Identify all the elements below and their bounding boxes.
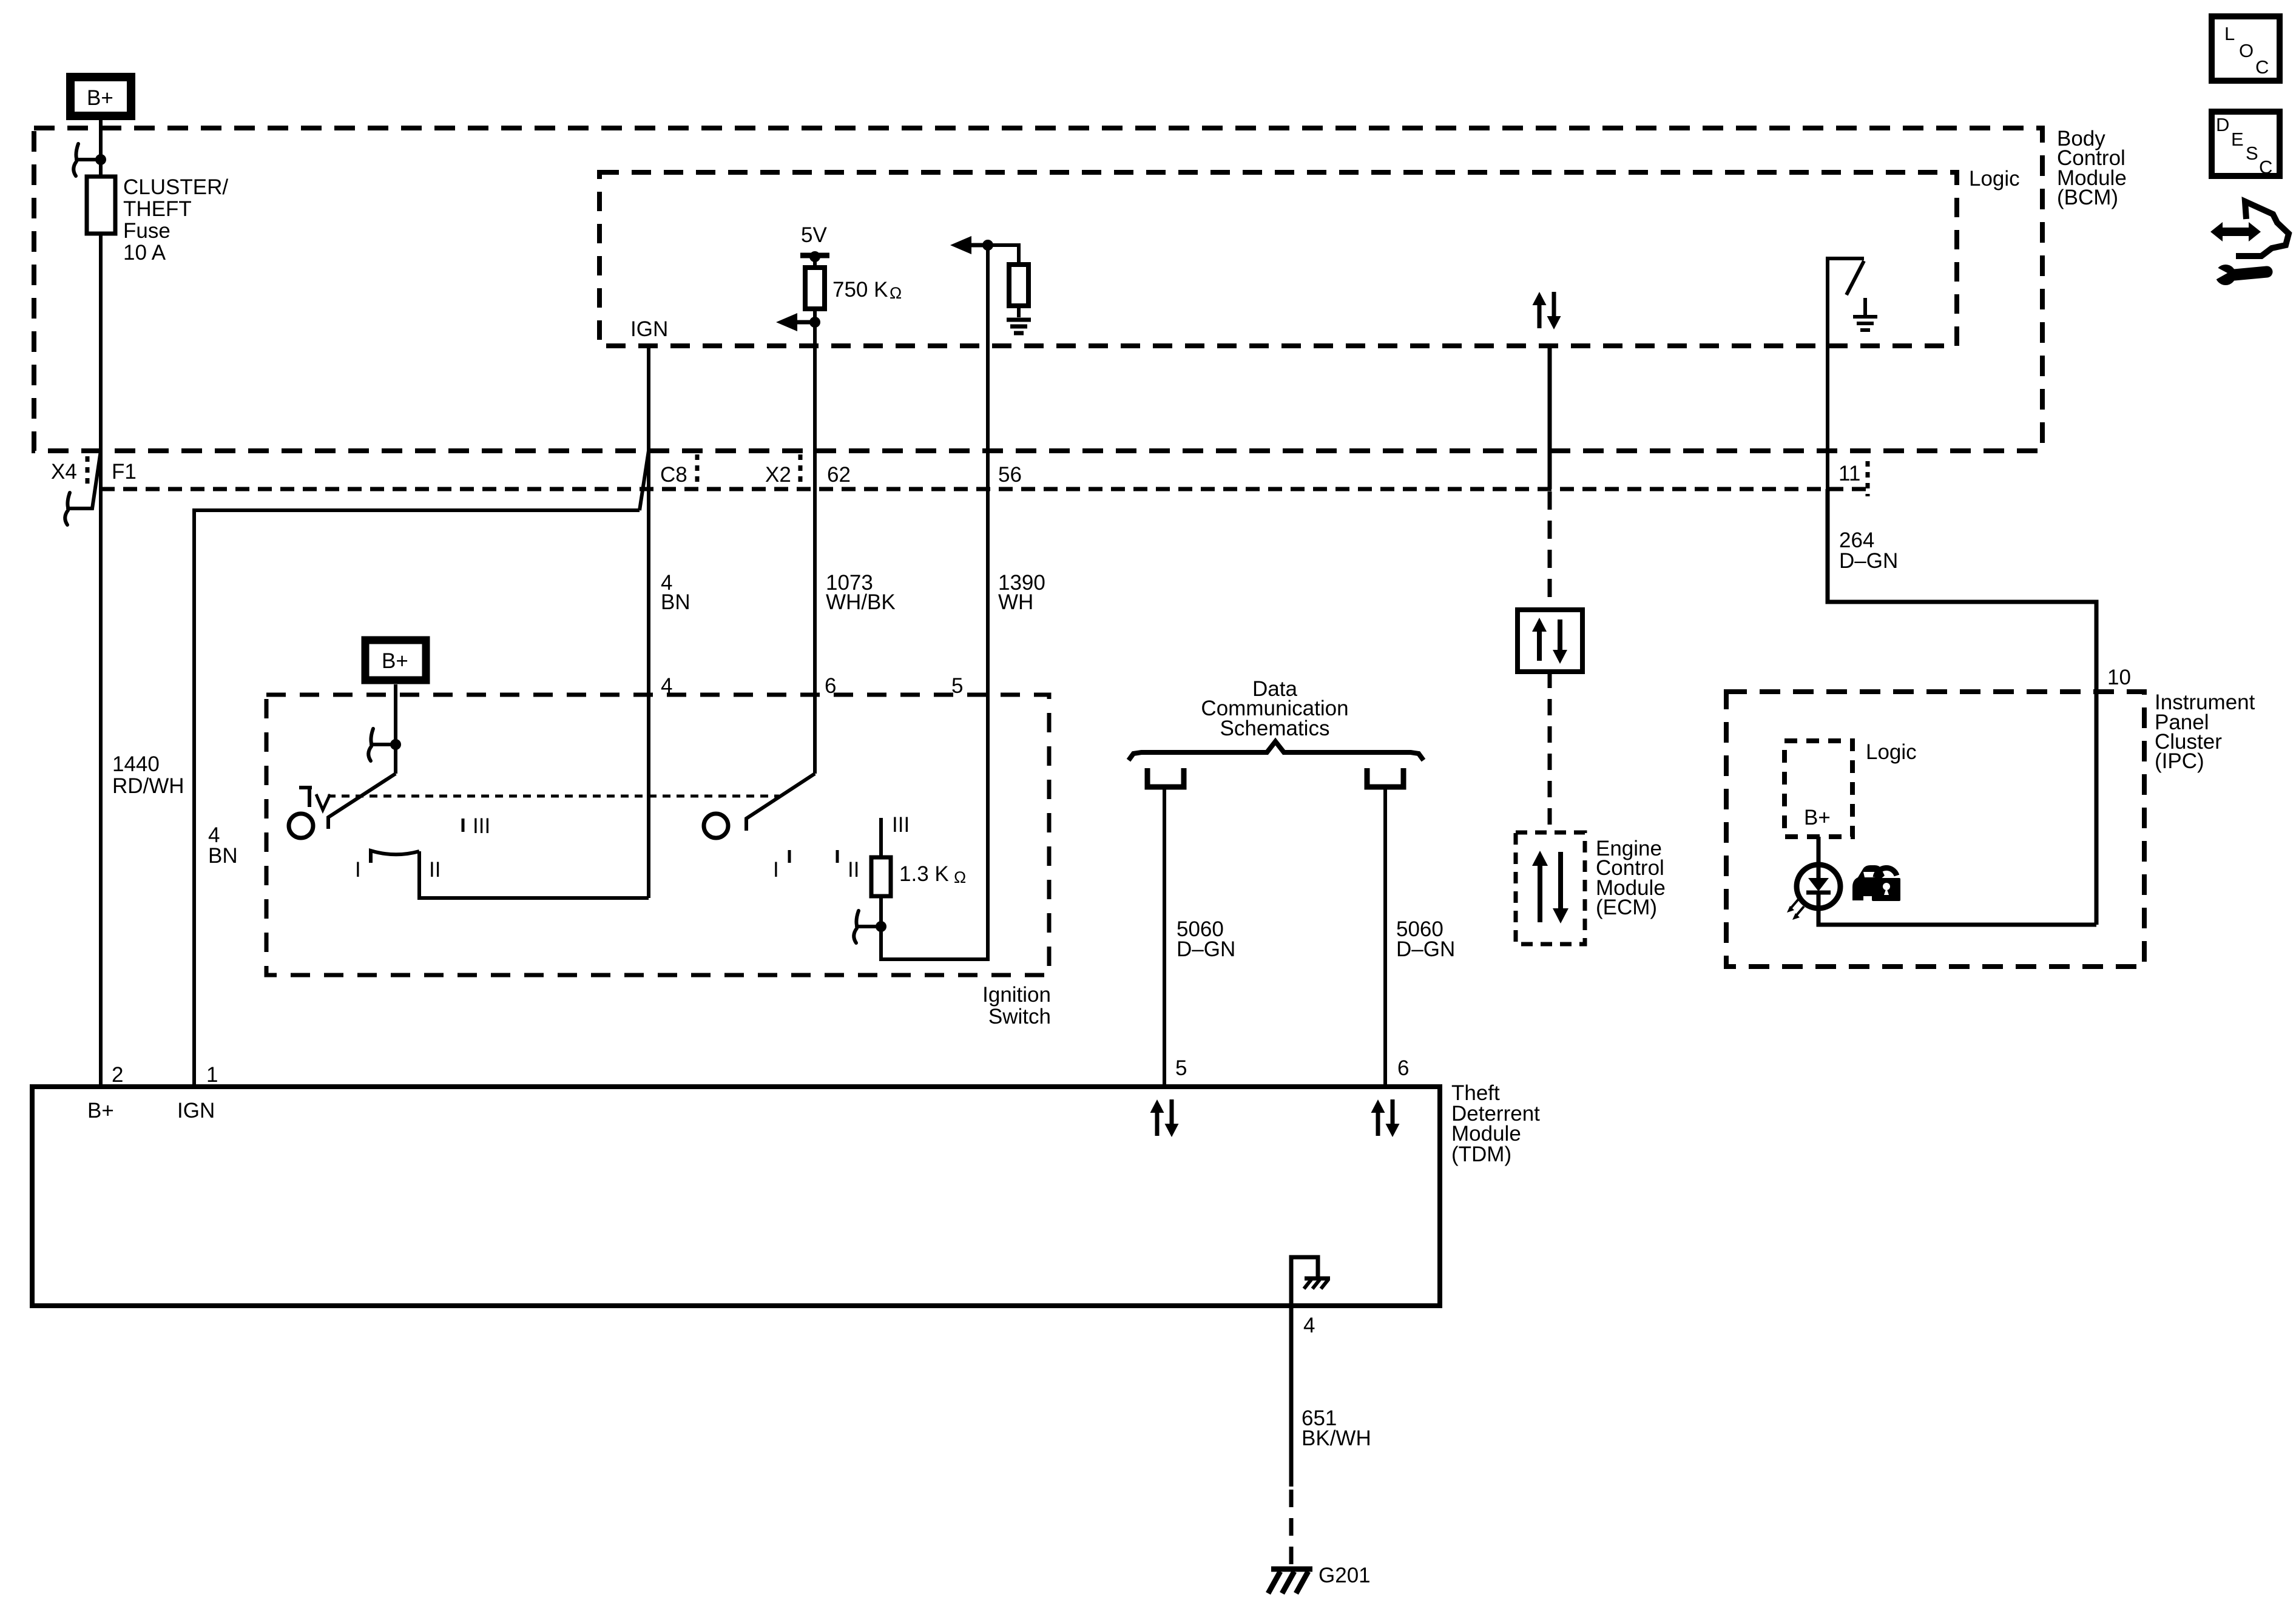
svg-text:S: S (2246, 143, 2258, 164)
battery feed B+ box (70, 77, 131, 116)
svg-text:III: III (892, 813, 910, 837)
clamp at 1.3 K node (854, 911, 881, 943)
clamp at F1 spur (65, 493, 92, 525)
5V supply bar (800, 253, 829, 258)
contact circle pole 2 (704, 814, 728, 838)
spur slant at C8 to TDM IGN branch (640, 451, 649, 510)
svg-text:11: 11 (1838, 462, 1860, 485)
junction node below 1.3 K (876, 921, 886, 932)
IPC dashed box (1726, 692, 2144, 967)
svg-text:2: 2 (112, 1063, 123, 1087)
arrow pointing left at 56 node (971, 243, 988, 248)
switch blade (open) (1846, 261, 1864, 295)
wire horizontal branch to TDM pin 1 (194, 510, 640, 1087)
car security icon (1852, 865, 1900, 901)
connector separator right of X2 (799, 454, 803, 485)
LED emission arrows (1787, 899, 1804, 920)
TDM internal ground trace (1291, 1257, 1318, 1306)
ground switch in BCM logic (1828, 258, 1864, 489)
svg-text:B+: B+ (87, 86, 113, 110)
ground symbol at switch (1853, 298, 1877, 330)
wire III contact to resistor 1.3 K (879, 818, 883, 857)
svg-text:IgnitionSwitch: IgnitionSwitch (982, 983, 1051, 1028)
wire 264 D-GN to IPC pin 10 (1828, 489, 2096, 925)
resistor 1.3 K (871, 857, 891, 896)
wire serial data to TDM pin 6 (1383, 789, 1387, 1087)
svg-text:6: 6 (1397, 1056, 1409, 1080)
junction node 56 branch (982, 240, 993, 251)
ground G201 symbol (1268, 1569, 1312, 1593)
resistor to ground (BCM) (1009, 265, 1028, 306)
connector separator right of 11 (1866, 461, 1870, 496)
svg-text:II: II (429, 858, 441, 882)
wire fuse output down to TDM pin 2 (99, 234, 103, 1087)
wire arc end to pin 4 rail (419, 851, 649, 898)
ground symbol (BCM pull-down) (1007, 320, 1031, 333)
wire dashed to G201 (1289, 1490, 1294, 1567)
ECM dashed box (1516, 832, 1585, 944)
connector separator right of C8 (695, 454, 700, 485)
position tick II pole 2 (836, 850, 839, 863)
arrow pointing left at node (797, 320, 815, 325)
svg-text:X4: X4 (51, 460, 77, 484)
ignition switch dashed box (266, 695, 1049, 975)
arrows in TDM below pin 6 (1371, 1099, 1400, 1137)
wire B+ from box to fuse (99, 120, 103, 177)
position tick III pole 1 (462, 819, 465, 832)
wire 5V bar to resistor (813, 255, 817, 268)
horizontal brace (1129, 741, 1423, 760)
wire resistor to ground symbol (1017, 306, 1021, 317)
svg-text:C: C (2259, 157, 2272, 178)
LED cathode bar (1806, 891, 1831, 895)
junction node at 5V bar (809, 251, 820, 262)
svg-text:5V: 5V (801, 223, 827, 247)
diagnostic icon (double arrow, dart outline, wrench) (2210, 201, 2289, 285)
contact circle pole 1 (289, 814, 313, 838)
svg-text:Ω: Ω (890, 284, 902, 302)
switch blade pole 2 (746, 774, 815, 831)
svg-text:1: 1 (206, 1063, 218, 1087)
wire serial data BCM to data link (dashed) (1548, 491, 1552, 610)
data link connector box (1518, 610, 1582, 672)
wire IGN from logic box to ignition switch pin 4 (647, 347, 650, 898)
serial data arrows in BCM logic (1533, 292, 1561, 329)
junction node below resistor (809, 317, 820, 328)
svg-text:F1: F1 (112, 460, 137, 484)
resistor 750 K (805, 268, 825, 309)
ignition B+ box (365, 640, 426, 680)
svg-text:62: 62 (827, 463, 851, 487)
arrows in TDM below pin 5 (1150, 1099, 1179, 1137)
clamp at ignition B+ node (368, 729, 396, 761)
svg-text:IGN: IGN (630, 317, 668, 341)
svg-text:B+: B+ (87, 1099, 114, 1122)
svg-text:I: I (773, 858, 779, 882)
svg-text:4: 4 (1303, 1314, 1315, 1337)
svg-text:C: C (2255, 56, 2269, 78)
svg-text:L: L (2224, 23, 2235, 44)
svg-text:B+: B+ (1804, 806, 1831, 829)
spur at F1 crossing (91, 451, 101, 508)
svg-text:II: II (848, 858, 859, 882)
connector separator X4/F1 (86, 456, 90, 484)
wire serial data BCM to connector (1548, 346, 1552, 489)
wire data link to ECM (dashed) (1548, 672, 1552, 832)
LOC reference box (2212, 16, 2280, 81)
svg-text:56: 56 (998, 463, 1022, 487)
switch blade pole 1 (328, 774, 396, 829)
svg-text:C8: C8 (660, 463, 687, 487)
svg-text:III: III (473, 814, 490, 838)
svg-text:5: 5 (1175, 1056, 1187, 1080)
clamp at fuse node (73, 144, 101, 176)
IPC B+ dashed boxlet (1784, 741, 1852, 837)
wire ignition B+ to pole 1 pivot (394, 684, 397, 774)
off-page connector U right (1367, 768, 1403, 787)
svg-text:Logic: Logic (1969, 167, 2020, 191)
position tick I pole 2 (788, 850, 791, 863)
wire serial data to TDM pin 5 (1163, 789, 1166, 1087)
svg-text:750 K: 750 K (832, 278, 888, 302)
chassis ground symbol in TDM (1304, 1278, 1330, 1289)
TDM box (32, 1087, 1440, 1306)
svg-text:D: D (2216, 114, 2229, 135)
fuse CLUSTER/THEFT 10A (87, 177, 115, 234)
svg-text:G201: G201 (1319, 1564, 1371, 1587)
BCM Logic dashed box (599, 172, 1957, 346)
LED diode triangle (1808, 878, 1829, 891)
svg-text:O: O (2239, 40, 2254, 61)
wire node to pull-down resistor (988, 245, 1019, 265)
svg-text:I: I (355, 858, 361, 882)
arrows in data link box (1532, 618, 1567, 664)
wire 56 down to ignition pin 5 and switch resistor (881, 245, 988, 959)
svg-text:B+: B+ (382, 649, 408, 673)
svg-text:E: E (2231, 129, 2244, 150)
svg-text:Ω: Ω (954, 868, 966, 886)
wire LED to pin 10 riser (1818, 893, 2096, 925)
wire resistor down through logic edge to ignition pin 6 (813, 309, 817, 774)
arrows in ECM box (1532, 851, 1568, 923)
DESC reference box (2212, 112, 2280, 178)
wire B+ to LED (1817, 837, 1821, 869)
LED indicator circle (1797, 865, 1840, 908)
off-page connector U left (1147, 768, 1184, 787)
svg-text:10: 10 (2107, 666, 2131, 689)
svg-text:1.3 K: 1.3 K (899, 862, 949, 886)
svg-text:X2: X2 (765, 463, 791, 487)
detent arc with tick pole 1 (371, 851, 419, 863)
wire 651 BK/WH (1289, 1306, 1294, 1487)
svg-text:EngineControlModule(ECM): EngineControlModule(ECM) (1596, 837, 1666, 919)
dotted link line between poles (328, 795, 779, 798)
junction node on ignition B+ wire (390, 739, 401, 750)
svg-text:Logic: Logic (1866, 740, 1917, 764)
BCM module dashed box (34, 128, 2042, 451)
svg-text:IGN: IGN (177, 1099, 215, 1122)
connector row dotted line (101, 487, 1866, 491)
fixed contact bracket pole 1 (299, 788, 330, 810)
junction node above fuse (95, 154, 106, 165)
